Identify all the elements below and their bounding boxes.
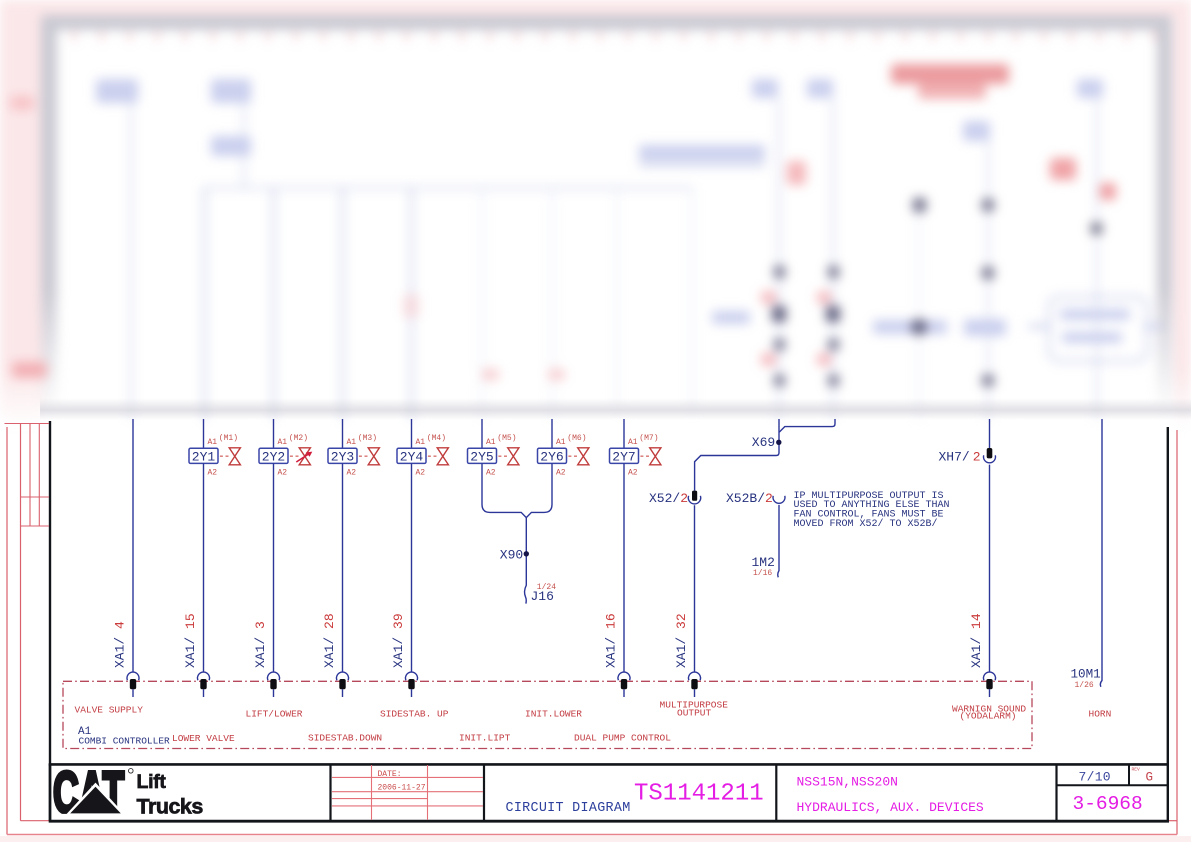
- blurred ruler tick marks: [0, 0, 1191, 430]
- blurred terminal: [982, 267, 994, 279]
- svg-text:XA1/ 39: XA1/ 39: [391, 613, 406, 668]
- drawing frame: black left border: [49, 421, 51, 821]
- blurred wire: [551, 188, 554, 420]
- svg-text:(M7): (M7): [639, 434, 658, 443]
- svg-text:MOVED FROM X52/ TO X52B/: MOVED FROM X52/ TO X52B/: [794, 518, 938, 530]
- blurred relay box outline: [1048, 296, 1148, 362]
- svg-text:A1: A1: [208, 438, 218, 447]
- svg-text:XA1/ 3: XA1/ 3: [253, 621, 268, 668]
- svg-text:7/10: 7/10: [1079, 770, 1111, 785]
- blurred terminal: [774, 339, 785, 350]
- blurred device label: [1077, 79, 1103, 98]
- svg-text:(YODALARM): (YODALARM): [960, 711, 1017, 722]
- svg-text:VALVE SUPPLY: VALVE SUPPLY: [75, 705, 144, 716]
- svg-text:XH7/2: XH7/2: [939, 449, 981, 464]
- wire XH7/2 to XA1/14: [989, 465, 991, 673]
- controller A1 dashed boundary box: [63, 681, 1032, 748]
- svg-text:(M2): (M2): [289, 434, 308, 443]
- blurred frame border right: [1157, 15, 1172, 415]
- svg-text:(M1): (M1): [219, 434, 238, 443]
- svg-text:A2: A2: [347, 468, 357, 477]
- drawing frame: black right border: [1167, 427, 1169, 821]
- svg-text:LIFT/LOWER: LIFT/LOWER: [246, 709, 303, 720]
- frame red inner left line: [20, 424, 22, 821]
- blurred device label: [964, 319, 1006, 336]
- date entry: [378, 770, 426, 793]
- wire riser right of X69: [779, 419, 835, 432]
- svg-text:(M4): (M4): [427, 434, 446, 443]
- render transition band: [40, 398, 1191, 420]
- blurred wire: [203, 187, 206, 420]
- blurred red marking: [548, 369, 565, 380]
- connector XA1/15: [183, 613, 209, 697]
- frame red outer left line: [6, 427, 8, 835]
- svg-text:A1: A1: [347, 438, 357, 447]
- svg-text:X69: X69: [752, 435, 775, 450]
- blurred red marking: [403, 294, 419, 318]
- svg-text:XA1/ 4: XA1/ 4: [113, 621, 128, 668]
- revision/date table: [332, 765, 483, 820]
- svg-text:HORN: HORN: [1089, 708, 1112, 719]
- blurred red marking: [10, 96, 34, 110]
- svg-text:2Y6: 2Y6: [540, 449, 563, 464]
- wire 2Y1 A2 side: [203, 463, 205, 672]
- blurred terminal: [982, 199, 994, 211]
- svg-text:(M5): (M5): [497, 434, 516, 443]
- wire 2Y3 A2 side: [342, 463, 344, 672]
- blurred wire: [481, 188, 484, 420]
- connector XA1/14: [969, 613, 995, 697]
- wire 2Y2 A2 side: [273, 463, 275, 672]
- blurred red marking: [761, 291, 776, 304]
- wire 2Y7 A2 side: [623, 463, 625, 672]
- svg-text:TS1141211: TS1141211: [634, 780, 764, 807]
- title block frame: [49, 764, 1169, 821]
- svg-text:Lift: Lift: [137, 771, 167, 793]
- wire X52/2 to XA1/32: [694, 505, 696, 672]
- blurred terminal: [774, 266, 785, 278]
- blurred red marking: [12, 362, 47, 378]
- wire 2Y2 A1 side: [273, 419, 275, 448]
- svg-text:Trucks: Trucks: [137, 795, 204, 819]
- blurred device label: [1060, 309, 1130, 320]
- blurred wire: [778, 98, 781, 420]
- blurred red marking: [891, 64, 1009, 84]
- wire to 10M1 horn: [1100, 419, 1102, 687]
- blurred device label: [639, 145, 765, 160]
- svg-text:XA1/ 16: XA1/ 16: [604, 613, 619, 668]
- svg-text:SIDESTAB.DOWN: SIDESTAB.DOWN: [308, 733, 382, 744]
- connector XH7/2: [939, 448, 996, 464]
- solenoid valve 2Y6: [538, 448, 589, 465]
- wire merge 2Y5+2Y6: [482, 463, 552, 517]
- connector XA1/32: [674, 613, 700, 697]
- svg-text:2006-11-27: 2006-11-27: [378, 783, 426, 792]
- blurred red marking: [787, 161, 806, 185]
- svg-text:1/24: 1/24: [537, 583, 556, 592]
- blurred frame border left: [41, 15, 57, 415]
- svg-text:NSS15N,NSS20N: NSS15N,NSS20N: [797, 775, 898, 790]
- blurred wire: [987, 141, 990, 420]
- wire 2Y3 A1 side: [342, 419, 344, 448]
- svg-text:COMBI CONTROLLER: COMBI CONTROLLER: [79, 735, 171, 746]
- note: multipurpose output: [794, 491, 950, 530]
- blurred red marking: [482, 369, 499, 380]
- blurred device label: [96, 79, 138, 103]
- solenoid valve 2Y5: [468, 448, 519, 465]
- blurred terminal: [828, 266, 839, 278]
- svg-text:A2: A2: [556, 468, 566, 477]
- blurred red marking: [1050, 158, 1076, 180]
- blurred device label: [712, 311, 750, 324]
- solenoid valve 2Y3: [328, 448, 379, 465]
- blurred underline: [639, 163, 765, 166]
- svg-text:A2: A2: [278, 468, 288, 477]
- cancellation arrow across 2Y2: [296, 452, 312, 462]
- svg-text:1/26: 1/26: [1075, 681, 1094, 690]
- blurred device label: [211, 79, 251, 103]
- svg-text:2Y1: 2Y1: [192, 449, 216, 464]
- blurred wire: [832, 98, 835, 420]
- blurred red marking: [761, 353, 776, 366]
- wire XA1/4 supply: [132, 419, 134, 672]
- CAT Lift Trucks logo: [52, 761, 203, 826]
- svg-text:OUTPUT: OUTPUT: [677, 707, 712, 718]
- blurred wire: [691, 188, 694, 413]
- svg-text:XA1/ 14: XA1/ 14: [969, 613, 984, 668]
- blurred wire: [410, 188, 413, 420]
- connector XA1/28: [322, 613, 348, 697]
- wire X69 to X52/2: [695, 419, 779, 491]
- device 1M2: [752, 555, 775, 578]
- svg-text:(M3): (M3): [358, 434, 377, 443]
- blurred device label: [963, 121, 990, 141]
- svg-text:SIDESTAB. UP: SIDESTAB. UP: [380, 709, 449, 720]
- svg-text:A2: A2: [486, 468, 496, 477]
- blurred device label: [873, 320, 947, 334]
- svg-text:G: G: [1146, 770, 1154, 784]
- blurred terminal: [772, 306, 786, 322]
- svg-text:INIT.LIPT: INIT.LIPT: [459, 733, 511, 744]
- svg-text:A1: A1: [278, 438, 288, 447]
- svg-text:10M1: 10M1: [1071, 668, 1101, 682]
- blurred red marking: [817, 291, 831, 304]
- solenoid valve 2Y2: [259, 448, 310, 465]
- connector XA1/3: [253, 621, 279, 697]
- blurred terminal: [826, 306, 840, 322]
- solenoid valve 2Y1: [189, 448, 240, 465]
- frame red outer right line: [1176, 430, 1178, 835]
- blurred wire: [272, 188, 275, 420]
- svg-text:A1: A1: [416, 438, 426, 447]
- svg-text:CIRCUIT DIAGRAM: CIRCUIT DIAGRAM: [506, 801, 631, 816]
- connector XA1/39: [391, 613, 417, 697]
- solenoid valve 2Y7: [610, 448, 661, 465]
- blurred terminal: [1091, 223, 1102, 234]
- wire X52B/2 to 1M2: [778, 505, 779, 577]
- blurred wire: [341, 188, 344, 420]
- svg-text:X52B/2: X52B/2: [726, 491, 773, 506]
- svg-text:3-6968: 3-6968: [1073, 793, 1143, 815]
- blurred device label: [807, 79, 833, 98]
- svg-text:DATE:: DATE:: [378, 770, 402, 779]
- device A1 combi controller label: [78, 726, 170, 746]
- svg-text:2Y7: 2Y7: [612, 449, 635, 464]
- revision letter G: [1132, 766, 1154, 784]
- connector XA1/16: [604, 613, 630, 697]
- svg-text:INIT.LOWER: INIT.LOWER: [525, 709, 582, 720]
- svg-text:A2: A2: [208, 468, 218, 477]
- blurred frame border top: [44, 15, 1170, 30]
- blurred device label: [211, 136, 251, 156]
- blurred device label: [1062, 332, 1122, 343]
- node X90: [500, 548, 529, 563]
- solenoid valve 2Y4: [397, 448, 448, 465]
- wire 2Y6 A1 side: [551, 419, 553, 448]
- svg-text:2Y4: 2Y4: [400, 449, 424, 464]
- blurred red marking: [918, 84, 986, 99]
- svg-text:2Y2: 2Y2: [262, 449, 285, 464]
- wire 2Y7 A1 side: [623, 419, 625, 448]
- svg-text:A1: A1: [556, 438, 566, 447]
- blurred bus line: [204, 187, 692, 190]
- blurred red marking: [1100, 183, 1116, 200]
- device 10M1: [1071, 668, 1101, 690]
- svg-text:LOWER VALVE: LOWER VALVE: [172, 733, 235, 744]
- svg-text:XA1/ 15: XA1/ 15: [183, 613, 198, 668]
- blurred wire: [918, 207, 921, 420]
- wire to XH7/2: [989, 419, 991, 448]
- svg-text:A2: A2: [416, 468, 426, 477]
- svg-text:XA1/ 32: XA1/ 32: [674, 613, 689, 668]
- blurred wire: [1096, 98, 1099, 420]
- wire to J16: [525, 517, 527, 604]
- blurred page margin (pink): [0, 0, 1191, 17]
- svg-text:A1: A1: [628, 438, 638, 447]
- blurred red marking: [817, 353, 831, 366]
- blurred terminal: [913, 198, 926, 212]
- blurred terminal: [828, 375, 839, 386]
- blurred device label: [752, 79, 778, 98]
- svg-text:A1: A1: [486, 438, 496, 447]
- svg-text:X52/2: X52/2: [649, 491, 688, 506]
- frame red bottom line: [7, 834, 1177, 836]
- connector X52B/2 (empty): [726, 491, 785, 506]
- connector X52/2: [649, 491, 701, 506]
- svg-text:1M2: 1M2: [752, 555, 775, 570]
- svg-text:REV: REV: [1132, 766, 1141, 772]
- svg-text:(M6): (M6): [567, 434, 586, 443]
- blurred wire: [130, 103, 133, 420]
- wire 2Y4 A1 side: [411, 419, 413, 448]
- svg-text:DUAL PUMP CONTROL: DUAL PUMP CONTROL: [574, 733, 671, 744]
- svg-text:A2: A2: [628, 468, 638, 477]
- connector XA1/4: [113, 621, 139, 697]
- blurred junction dot: [911, 319, 927, 335]
- wire 2Y4 A2 side: [411, 463, 413, 672]
- page bottom edge (pink): [0, 836, 1191, 842]
- svg-text:2Y3: 2Y3: [331, 449, 354, 464]
- svg-text:1/16: 1/16: [753, 569, 772, 578]
- svg-text:XA1/ 28: XA1/ 28: [322, 613, 337, 668]
- blurred terminal: [774, 375, 785, 386]
- blurred wire: [243, 103, 246, 188]
- blurred terminal: [828, 339, 839, 350]
- frame red bottom inner segments: [21, 820, 50, 822]
- connector J16: [531, 583, 557, 604]
- svg-text:HYDRAULICS, AUX. DEVICES: HYDRAULICS, AUX. DEVICES: [797, 800, 984, 815]
- svg-text:2Y5: 2Y5: [470, 449, 493, 464]
- wire 2Y1 A1 side: [203, 419, 205, 448]
- node X69: [752, 435, 782, 450]
- frame red fold marks column: [5, 424, 50, 527]
- wire 2Y5 A1 side: [481, 419, 483, 448]
- svg-text:X90: X90: [500, 548, 523, 563]
- blurred wire: [616, 188, 619, 412]
- blurred terminal: [982, 375, 994, 386]
